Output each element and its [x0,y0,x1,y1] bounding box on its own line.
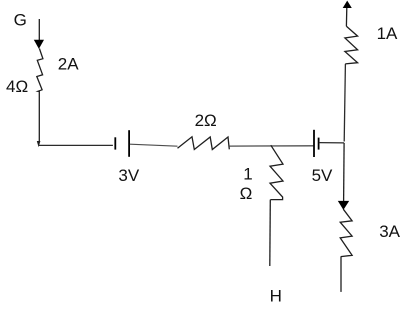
resistor 1Ω [270,145,283,199]
resistor 2Ω [178,137,230,150]
wire: 1Ω to H [269,200,272,266]
wire: 2Ω to 5V [229,145,313,147]
current arrow 1A [343,1,352,8]
wire: right branch middle [343,143,346,202]
battery 3V positive plate [128,130,130,157]
wire: 5V to right branch [319,142,344,144]
wire: left branch bottom [38,91,40,142]
battery 5V positive plate [313,130,315,157]
battery 3V negative plate [114,137,116,149]
wire: above resistor [345,8,347,27]
wire: right branch upper [344,64,345,142]
resistor (3A branch) [340,209,352,256]
svg-text:G: G [14,10,27,29]
wire end arrowhead [37,141,41,147]
wire: 3V to 2Ω [130,144,178,146]
resistor (1A branch) [345,26,358,64]
current arrow 2A [34,40,44,49]
svg-text:3A: 3A [379,222,400,241]
wire: bottom-right stub [340,257,342,292]
svg-text:2Ω: 2Ω [195,111,217,130]
wire: left branch top [38,19,40,40]
svg-text:Ω: Ω [240,184,253,203]
svg-text:3V: 3V [118,166,139,185]
svg-text:1: 1 [243,165,252,184]
svg-text:1A: 1A [377,24,398,43]
battery 5V negative plate [318,138,320,150]
wire: bottom-left horizontal [39,144,113,146]
resistor 4Ω [37,49,43,92]
current arrow 3A [338,201,349,210]
svg-text:5V: 5V [312,166,333,185]
svg-text:2A: 2A [58,55,79,74]
svg-text:H: H [270,286,282,305]
svg-text:4Ω: 4Ω [6,77,28,96]
